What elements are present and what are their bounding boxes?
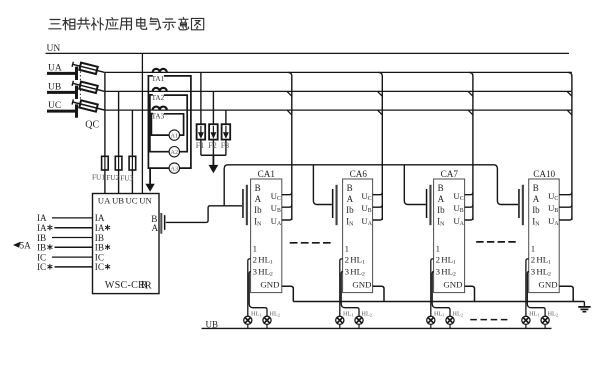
wire arrester F1 to join: [200, 140, 202, 156]
asterisk pin IB*: [105, 245, 109, 250]
wire CA7 phase column: [469, 72, 473, 220]
CA6 comm connector long bar: [336, 185, 338, 225]
svg-text:3: 3: [531, 267, 536, 277]
svg-text:UC: UC: [126, 196, 138, 206]
svg-text:2: 2: [531, 254, 535, 264]
svg-text:GND: GND: [539, 279, 558, 289]
asterisk of IA*: [48, 225, 52, 230]
asterisk of IB*: [48, 245, 52, 250]
wire TA2 secondary left: [150, 95, 169, 152]
svg-text:IC: IC: [95, 262, 104, 272]
svg-text:F3: F3: [221, 141, 229, 150]
svg-text:FU2: FU2: [106, 173, 119, 182]
wire IA input: [52, 217, 93, 219]
arrester F2 arrow: [211, 133, 215, 138]
svg-text:HL1: HL1: [434, 311, 445, 318]
svg-text:HL1: HL1: [343, 311, 354, 318]
wire B/A stub to module: [313, 165, 332, 205]
switch blade QC phase UB: [73, 83, 105, 91]
CA10 tap UC: [567, 110, 572, 115]
svg-text:IB: IB: [37, 243, 46, 253]
wire CT common to controller: [149, 168, 151, 186]
svg-text:IB: IB: [37, 233, 46, 243]
svg-text:Ib: Ib: [254, 205, 262, 215]
wire B/A stub to module: [404, 165, 426, 205]
wire CA1 phase hook: [282, 218, 292, 220]
wire CA1 phase column: [288, 72, 292, 220]
wire arrester F2 to join: [212, 140, 214, 156]
wire bus to arrester F1: [200, 72, 202, 124]
svg-text:UA: UA: [48, 63, 62, 73]
wire CA10 HL1 lamp: [526, 259, 529, 316]
wire earth bus: [293, 301, 584, 303]
wire CA1 phase hook: [282, 192, 292, 194]
lamp HL2 of CA1: [263, 316, 271, 324]
svg-text:IC: IC: [95, 252, 104, 262]
CA1 tap UC: [287, 110, 292, 115]
wire CA6 HL2 lamp: [341, 272, 359, 317]
svg-text:Ib: Ib: [346, 205, 354, 215]
arrester F2 stem: [212, 126, 214, 133]
svg-text:B: B: [533, 183, 539, 193]
svg-text:UC: UC: [48, 101, 61, 111]
blade hinge tick UB: [72, 81, 73, 86]
5A arrow: [14, 242, 20, 247]
wire UN drop to controller: [141, 53, 143, 193]
wire CA1 HL1 lamp: [248, 259, 251, 316]
svg-text:IB: IB: [95, 243, 104, 253]
arrester F3: [222, 124, 231, 139]
svg-text:3: 3: [253, 267, 258, 277]
lamp HL1 of CA7: [427, 316, 435, 324]
CA1 tap UB: [287, 91, 292, 96]
arrester F1 stem: [200, 126, 202, 133]
wire CA10 HL2 lamp: [527, 272, 545, 317]
wire CA1 GND to earth bus: [282, 286, 294, 301]
lamp HL1 of CA6: [336, 316, 344, 324]
svg-text:TA3: TA3: [152, 113, 165, 121]
wire CA6 phase column: [379, 72, 383, 220]
title text 三相共补应用电气示意图 (drawn strokes): [49, 17, 204, 30]
wire IC* input: [55, 266, 93, 268]
wire CA10 phase hook: [559, 205, 572, 207]
lamp HL1 of CA10: [522, 316, 530, 324]
svg-text:1: 1: [436, 244, 440, 254]
switch blade QC phase UC: [73, 102, 105, 110]
busbar UC (thick): [47, 110, 77, 113]
module CA10 box: [529, 179, 560, 293]
wire CA6 HL1 lamp: [340, 259, 343, 316]
blade hinge tick UA: [72, 62, 73, 67]
fuse FU3 element: [131, 156, 133, 170]
wire arrester common: [201, 154, 226, 156]
svg-text:A: A: [347, 194, 354, 204]
svg-text:IC: IC: [37, 262, 46, 272]
svg-text:CA10: CA10: [533, 169, 555, 179]
wire CA6 phase hook: [373, 192, 383, 194]
CA7 comm connector long bar: [429, 185, 431, 225]
wire CA6 GND to earth bus: [373, 286, 384, 301]
wire CA7 phase hook: [465, 218, 473, 220]
ground symbol: [578, 302, 590, 312]
svg-text:B: B: [438, 183, 444, 193]
fuse FU3: [129, 156, 136, 170]
ammeter A3: [169, 163, 179, 173]
svg-text:IA: IA: [37, 213, 47, 223]
svg-text:GND: GND: [260, 279, 279, 289]
svg-text:HL2: HL2: [452, 311, 463, 318]
wire CA6 phase hook: [373, 218, 383, 220]
QC linkage (dotted): [79, 64, 81, 107]
CA6 tap UB: [378, 91, 383, 96]
wire CA7 phase hook: [465, 192, 473, 194]
svg-text:UA: UA: [98, 196, 111, 206]
wire CA7 phase hook: [465, 205, 473, 207]
svg-text:HL2: HL2: [548, 311, 559, 318]
wire UB lamp bus: [202, 327, 552, 329]
wire IC input: [52, 256, 93, 258]
svg-text:IA: IA: [95, 223, 105, 233]
wire lamp HL2 of CA7 to UB bus: [449, 324, 451, 328]
wire CA10 phase column: [568, 72, 572, 220]
svg-text:HL1: HL1: [251, 311, 262, 318]
arrester F3 stem: [225, 126, 227, 133]
asterisk pin IC*: [105, 264, 109, 269]
wire IB* input: [55, 246, 93, 248]
svg-text:Ib: Ib: [532, 205, 540, 215]
wire UN bus: [46, 52, 570, 54]
wire CA10 GND to earth bus: [559, 286, 573, 301]
svg-text:IA: IA: [95, 213, 105, 223]
svg-text:UB: UB: [48, 82, 61, 92]
svg-text:R: R: [145, 280, 152, 291]
lamp HL2 of CA7: [446, 316, 454, 324]
wire TA1 secondary left: [148, 76, 169, 168]
lamp HL1 of CA1: [244, 316, 252, 324]
wire bus to arrester F3: [225, 110, 227, 124]
wire IA* input: [55, 227, 93, 229]
module CA1 box: [251, 179, 282, 293]
svg-text:F2: F2: [208, 141, 216, 150]
wire TA2 secondary right: [164, 95, 187, 152]
fuse FU2 element: [118, 156, 120, 170]
ammeter A2: [169, 147, 179, 157]
CT TA1 primary bumps: [153, 69, 167, 73]
svg-text:HL2: HL2: [361, 311, 372, 318]
svg-text:FU3: FU3: [120, 173, 133, 182]
svg-text:A1: A1: [171, 132, 179, 139]
fuse FU1 element: [104, 156, 106, 170]
ammeter A1: [169, 130, 179, 140]
wire TA1 secondary right: [164, 76, 191, 168]
wire UB bus: [104, 90, 572, 92]
svg-text:2: 2: [253, 254, 257, 264]
svg-text:CA6: CA6: [350, 169, 368, 179]
svg-text:A: A: [255, 194, 262, 204]
fixed contact UC: [75, 104, 78, 117]
wire lamp HL1 of CA10 to UB bus: [525, 324, 527, 328]
wire CA7 GND to earth bus: [465, 286, 475, 301]
svg-text:F1: F1: [196, 141, 204, 150]
svg-text:A3: A3: [171, 165, 179, 172]
wire lamp HL1 of CA6 to UB bus: [339, 324, 341, 328]
svg-text:QC: QC: [85, 120, 99, 131]
dashed continuation CA1-CA6: [290, 242, 331, 244]
wire CA1 HL2 lamp: [249, 272, 267, 317]
wire CA1 phase hook: [282, 205, 292, 207]
svg-text:HL1: HL1: [529, 311, 540, 318]
CA10 comm connector short bar: [518, 189, 520, 218]
wire lamp HL2 of CA10 to UB bus: [544, 324, 546, 328]
svg-text:2: 2: [436, 254, 440, 264]
wire lamp HL1 of CA1 to UB bus: [247, 324, 249, 328]
wire lamp HL2 of CA1 to UB bus: [266, 324, 268, 328]
svg-text:Ib: Ib: [437, 205, 445, 215]
svg-text:UN: UN: [139, 196, 152, 206]
comm connector at controller (long bar): [160, 213, 162, 234]
svg-text:TA2: TA2: [152, 94, 165, 102]
CA7 tap UC: [468, 110, 473, 115]
svg-text:UN: UN: [47, 44, 61, 54]
blade hinge tick UC: [72, 99, 73, 104]
svg-text:3: 3: [345, 267, 350, 277]
CA10 comm connector long bar: [522, 185, 524, 225]
CA10 tap UB: [567, 91, 572, 96]
busbar UA (thick): [47, 72, 77, 75]
svg-text:B: B: [255, 183, 261, 193]
CA1 comm connector long bar: [246, 185, 248, 225]
svg-text:IA: IA: [37, 223, 47, 233]
wire phase drop to FU2: [118, 91, 120, 193]
asterisk of IC*: [48, 264, 52, 269]
wire TA3 secondary right: [164, 114, 184, 135]
CA1 comm connector short bar: [242, 189, 244, 218]
wire TA3 secondary left: [151, 114, 169, 136]
CA7 tap UB: [468, 91, 473, 96]
svg-text:1: 1: [253, 244, 257, 254]
svg-text:IB: IB: [95, 233, 104, 243]
svg-text:B: B: [347, 183, 353, 193]
lamp HL2 of CA6: [355, 316, 363, 324]
wire B/A bus: [224, 165, 518, 206]
svg-text:1: 1: [345, 244, 349, 254]
wire arrester F3 to join: [225, 140, 227, 156]
fuse FU2: [115, 156, 122, 170]
svg-text:HL2: HL2: [269, 311, 280, 318]
svg-text:CA1: CA1: [258, 169, 276, 179]
asterisk pin IA*: [105, 225, 109, 230]
CA6 tap UC: [378, 110, 383, 115]
lamp HL2 of CA10: [541, 316, 549, 324]
svg-text:GND: GND: [352, 279, 371, 289]
fuse body on QC blade UB: [79, 82, 97, 93]
fuse body on QC blade UC: [79, 100, 97, 111]
module CA6 box: [343, 179, 373, 293]
svg-text:A2: A2: [171, 149, 179, 156]
svg-text:5A: 5A: [20, 240, 32, 250]
arrester F1 arrow: [199, 133, 203, 138]
comm connector at controller (short bar): [164, 215, 166, 230]
CA6 comm connector short bar: [332, 189, 334, 218]
arrester F2: [209, 124, 218, 139]
fuse body on QC blade UA: [79, 63, 97, 74]
CT TA2 primary bumps: [153, 88, 167, 92]
earth arrow: [209, 165, 217, 172]
wire lamp HL1 of CA7 to UB bus: [430, 324, 432, 328]
CT TA3 primary bumps: [153, 107, 167, 111]
svg-text:A: A: [438, 194, 445, 204]
wire phase drop to FU1: [104, 72, 106, 193]
wire arrester earth lead: [212, 155, 214, 166]
wire bus to arrester F2: [212, 91, 214, 124]
svg-text:1: 1: [531, 244, 535, 254]
wire lamp HL2 of CA6 to UB bus: [358, 324, 360, 328]
wire CA7 HL1 lamp: [431, 259, 434, 316]
svg-text:TA1: TA1: [152, 75, 165, 83]
svg-text:3: 3: [436, 267, 441, 277]
switch blade QC phase UA: [73, 64, 105, 72]
busbar UB (thick): [47, 91, 77, 94]
arrow into controller: [146, 184, 154, 191]
arrester F3 arrow: [224, 133, 228, 138]
svg-text:GND: GND: [443, 279, 462, 289]
dashed continuation CA7-CA10: [476, 241, 516, 243]
wire IB input: [52, 237, 93, 239]
fuse FU1: [102, 156, 109, 170]
svg-text:IC: IC: [37, 252, 46, 262]
wire CA7 HL2 lamp: [432, 272, 450, 317]
wire B/A from controller to CA1: [166, 206, 242, 223]
wire UA bus: [104, 71, 572, 73]
fixed contact UA: [75, 67, 78, 80]
arrester F1: [197, 124, 206, 139]
dashed continuation lamp row: [470, 319, 507, 321]
CA7 comm connector short bar: [426, 189, 428, 218]
wire CA6 phase hook: [373, 205, 383, 207]
wire CA10 phase hook: [559, 192, 572, 194]
svg-text:2: 2: [345, 254, 349, 264]
svg-text:FU1: FU1: [92, 172, 105, 181]
fixed contact UB: [75, 86, 78, 99]
svg-text:A: A: [152, 223, 159, 233]
wire phase drop to FU3: [131, 110, 133, 193]
module CA7 box: [434, 179, 465, 293]
wire CA10 phase hook: [559, 218, 572, 220]
svg-text:CA7: CA7: [441, 169, 459, 179]
svg-text:WSC-CR: WSC-CR: [105, 280, 145, 291]
controller WSC-CR box: [93, 194, 160, 294]
svg-text:UB: UB: [112, 196, 124, 206]
svg-text:A: A: [533, 194, 540, 204]
wire UC bus: [104, 109, 572, 111]
